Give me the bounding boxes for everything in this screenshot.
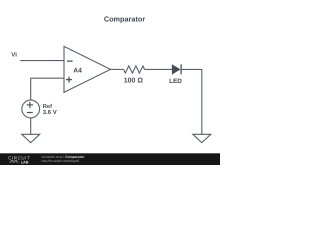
LED D1 anode triangle [172, 65, 179, 74]
wire reference source to op-amp non-inverting input [31, 78, 64, 100]
schematic title "Comparator" [104, 14, 146, 23]
wire voltage source to ground [30, 118, 32, 134]
resistor value 100 Ohm [124, 78, 144, 85]
op-amp inverting input minus sign [67, 60, 73, 62]
wire resistor to LED [145, 68, 173, 70]
wire op-amp output to resistor [111, 68, 124, 70]
CircuitLab watermark footer bar [0, 153, 220, 165]
voltage source value 3.6 V [43, 109, 57, 116]
LED label [169, 78, 182, 85]
node Vi label [11, 52, 17, 59]
svg-text:Vi: Vi [11, 52, 17, 59]
svg-text:3.6 V: 3.6 V [43, 109, 57, 116]
svg-text:Ref: Ref [43, 103, 52, 110]
wire Vi to op-amp inverting input [20, 60, 64, 62]
op-amp designator A4 [73, 67, 82, 74]
voltage source label Ref [43, 103, 52, 110]
svg-text:A4: A4 [73, 67, 82, 74]
footer schematic url [42, 159, 80, 163]
svg-text:100 Ω: 100 Ω [124, 78, 144, 85]
svg-text:http:∕∕circuitlab.com∕c6qp45: http:∕∕circuitlab.com∕c6qp45 [42, 159, 80, 163]
op-amp A4 body [64, 46, 111, 92]
voltage source V1 Ref body [22, 100, 40, 118]
resistor R1 zigzag [124, 66, 145, 73]
voltage source minus sign [27, 112, 33, 114]
ground GND2 [193, 134, 211, 142]
LED D1 cathode bar [180, 64, 182, 74]
CircuitLab logo CIRCUIT [8, 156, 30, 161]
voltage source plus sign [27, 102, 33, 108]
svg-text:LAB: LAB [21, 160, 29, 164]
wire LED to ground [181, 69, 202, 134]
svg-text:LED: LED [169, 78, 182, 85]
ground GND1 [22, 134, 40, 142]
CircuitLab logo waveform and LAB [9, 160, 28, 164]
footer author / title text [42, 155, 85, 159]
op-amp non-inverting input plus sign [66, 77, 72, 83]
svg-text:Comparator: Comparator [104, 14, 146, 23]
